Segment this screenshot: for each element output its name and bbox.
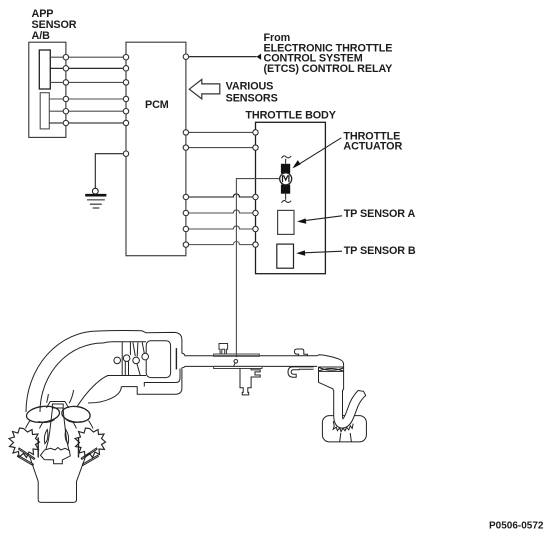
- wire APP1 signal 3: [50, 81, 126, 83]
- leader tail inside pipe: [234, 363, 235, 366]
- wire APP2 signal 3: [49, 122, 126, 124]
- connector pins PCM right edge: [183, 54, 188, 247]
- throttle plate bowtie: [319, 368, 344, 372]
- TP sensor A box: [278, 210, 294, 234]
- intake elbow outer arc: [26, 331, 98, 412]
- throttle bore rounded box: [146, 341, 170, 378]
- intake elbow second arc: [40, 343, 103, 412]
- pipe top mounting plate: [214, 354, 260, 356]
- valve leaf right: [65, 430, 68, 444]
- jagged break star left: [9, 428, 40, 458]
- wire APP1 signal 2: [50, 67, 126, 69]
- svg-text:PCM: PCM: [145, 99, 169, 111]
- wire APP2 signal 2: [49, 110, 126, 112]
- linkage legs lower: [124, 362, 126, 376]
- intake elbow inner-wall arc: [78, 376, 109, 407]
- motor winding bottom (black): [281, 185, 290, 194]
- cap inner notch: [52, 404, 63, 408]
- cushion blob under spout: [322, 416, 366, 442]
- airbox top contour: [98, 331, 182, 354]
- svg-text:P0506-0572: P0506-0572: [489, 520, 544, 531]
- wire PCM ground lead: [95, 154, 126, 189]
- ground symbol: [85, 188, 106, 208]
- svg-text:TP SENSOR B: TP SENSOR B: [344, 245, 416, 257]
- intake elbow inner arc: [88, 387, 121, 403]
- motor stem+squiggle bottom: [285, 194, 287, 200]
- lower hook clip: [288, 367, 314, 377]
- leader end circle on throttle body: [234, 360, 238, 364]
- linkage rods upper: [133, 342, 135, 356]
- airbox inner top line: [103, 342, 146, 343]
- valve stem left: [37, 437, 39, 457]
- intake runner ear left: [26, 405, 61, 425]
- wire PCM to TB motor -: [186, 147, 256, 149]
- main pipe bottom line: [182, 366, 317, 367]
- intake runner ear left inner curl: [39, 420, 55, 423]
- pipe bottom plate: [214, 366, 262, 368]
- svg-text:A/B: A/B: [32, 30, 51, 42]
- wire PCM to TB TP4 (hop): [186, 242, 256, 245]
- throttle shaft line: [175, 348, 177, 369]
- wire PCM to TB TP1 (hop): [186, 194, 256, 197]
- leader arrow to throttle actuator: [294, 138, 341, 167]
- port wall stubs left: [26, 421, 44, 429]
- port wall stubs right: [73, 421, 93, 429]
- main pipe top line: [182, 353, 317, 356]
- airbox left chamber: [107, 342, 122, 376]
- port channel right S: [63, 408, 69, 450]
- valve leaf left: [44, 430, 47, 444]
- manifold cap trapezoid: [46, 402, 68, 409]
- throttle housing left side: [319, 367, 334, 390]
- wire PCM to TB motor +: [186, 131, 256, 133]
- connector pins throttle body left edge: [253, 130, 258, 248]
- throttle body box: [256, 122, 326, 273]
- APP sensor element 1: [39, 50, 50, 89]
- port channel left S: [46, 408, 53, 449]
- throttle housing outline top: [317, 355, 344, 391]
- downpipe + U-turn + spout tube (outline via double stroke): [338, 390, 361, 424]
- wire PCM to TB TP2 (hop): [186, 210, 256, 213]
- label M in motor: [283, 176, 289, 182]
- valve wedge right: [81, 448, 98, 465]
- connector pins PCM left edge: [123, 55, 128, 157]
- connector pins APP box edge: [63, 55, 68, 126]
- svg-text:SENSORS: SENSORS: [226, 93, 278, 105]
- svg-text:TP SENSOR A: TP SENSOR A: [344, 208, 416, 220]
- linkage pivot circles: [114, 357, 121, 364]
- combustion chamber pocket: [41, 448, 71, 464]
- arrowhead ETCS incoming: [257, 54, 262, 60]
- VARIOUS SENSORS block arrow: [189, 79, 220, 99]
- airbox inner bottom contour: [144, 369, 180, 387]
- intake runner ear right: [61, 405, 91, 424]
- wire motor lead + leader line down to throttle body picture: [236, 179, 280, 358]
- svg-text:ACTUATOR: ACTUATOR: [343, 141, 402, 153]
- motor winding top (black): [281, 164, 290, 174]
- housing inner lines: [318, 366, 343, 368]
- airbox right wall lower + bottom contour: [121, 368, 182, 395]
- small top bracket box: [219, 344, 228, 355]
- PCM box U1: [126, 42, 186, 256]
- tear zigzag under U: [333, 421, 353, 432]
- leader arrow to TP sensor B: [298, 251, 342, 253]
- wire APP2 signal 1: [49, 98, 126, 100]
- upper hook clip: [294, 349, 307, 356]
- valve wedge left: [17, 448, 34, 465]
- airbox inner bottom line: [122, 375, 146, 377]
- motor circle M: [280, 173, 292, 185]
- tear pedestal lines: [340, 433, 352, 442]
- linkage pillar: [129, 342, 131, 355]
- svg-text:VARIOUS: VARIOUS: [226, 81, 274, 93]
- intake runner ear right inner curl: [66, 420, 81, 423]
- svg-text:(ETCS) CONTROL RELAY: (ETCS) CONTROL RELAY: [264, 63, 394, 75]
- APP sensor A/B outer box: [29, 42, 66, 137]
- APP sensor element 2: [40, 93, 49, 129]
- hanging bracket: [240, 369, 260, 395]
- engine block trapezoid: [30, 457, 86, 503]
- jagged break star right: [75, 428, 106, 458]
- wire ETCS relay feed: [186, 56, 257, 58]
- svg-text:THROTTLE BODY: THROTTLE BODY: [245, 110, 336, 122]
- wire PCM to TB TP3 (hop): [186, 226, 256, 229]
- spout beak tip: [358, 391, 366, 397]
- wire APP1 signal 1: [50, 56, 126, 58]
- TP sensor B box: [277, 244, 294, 268]
- leader arrow to TP sensor A: [299, 216, 342, 222]
- valve stem right: [78, 437, 80, 457]
- cap runner connectors: [47, 394, 49, 403]
- throttle actuator motor M : stem+squiggle top: [282, 156, 292, 158]
